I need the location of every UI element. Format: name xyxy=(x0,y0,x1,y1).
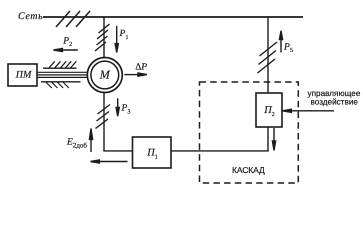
svg-text:М: М xyxy=(99,67,111,81)
svg-text:ПМ: ПМ xyxy=(15,70,32,81)
svg-text:воздействие: воздействие xyxy=(310,97,358,106)
svg-text:ΔP: ΔP xyxy=(135,63,147,73)
svg-text:Сеть: Сеть xyxy=(18,11,43,22)
svg-text:КАСКАД: КАСКАД xyxy=(232,165,265,175)
